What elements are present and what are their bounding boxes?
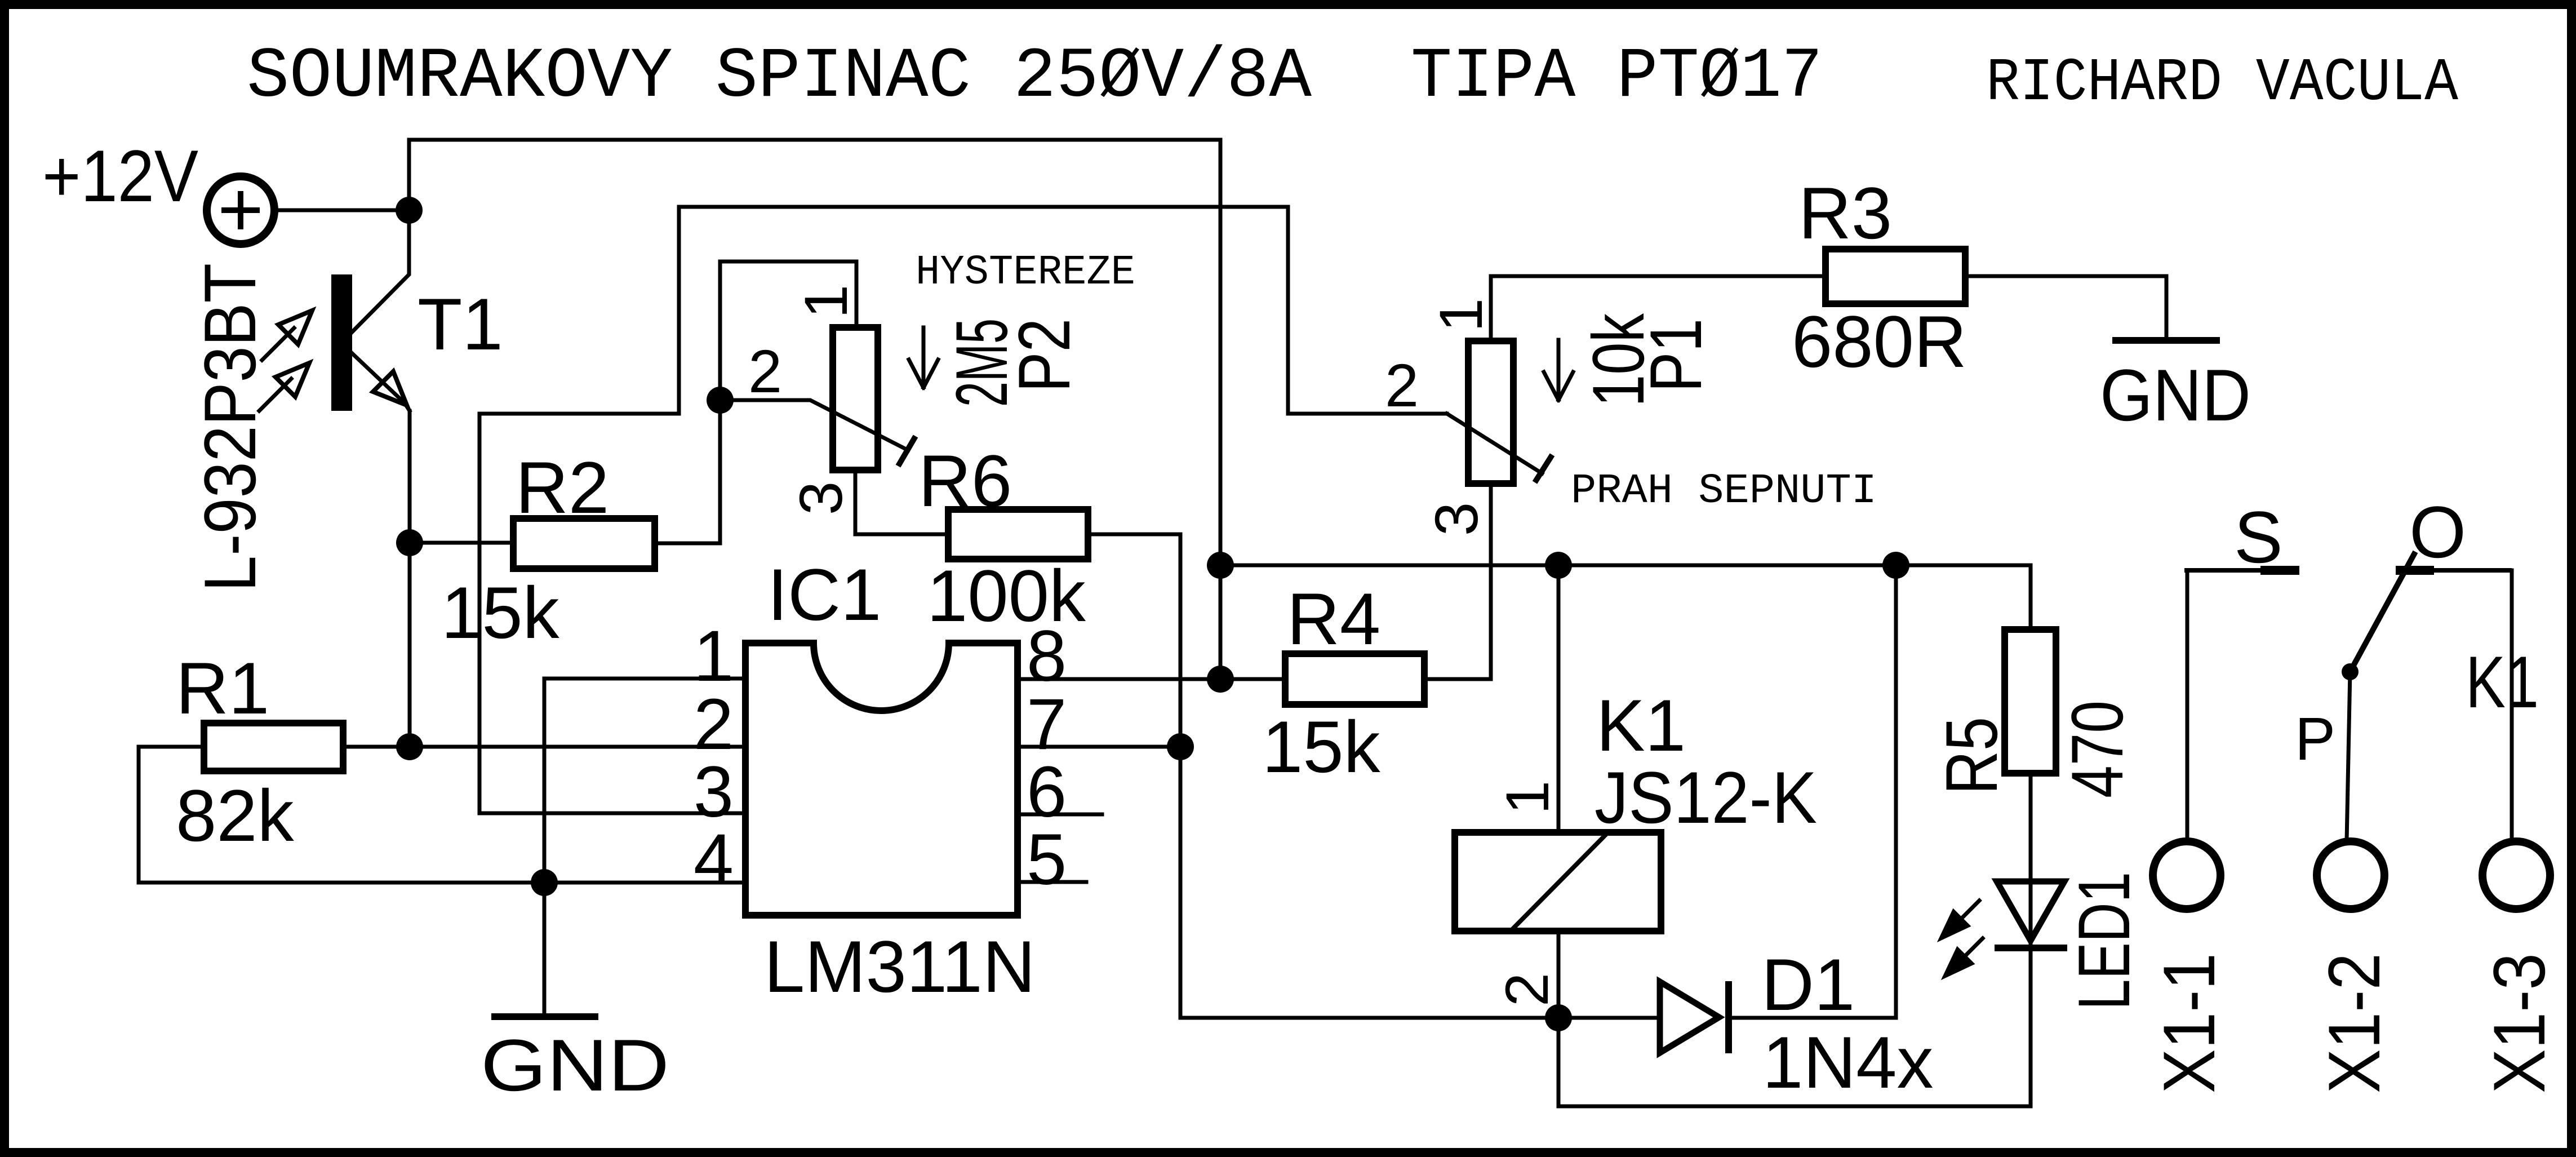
svg-text:+12V: +12V (42, 135, 198, 217)
wire P2 pin3 to R6 (855, 470, 948, 534)
adjust arrow of P2 (909, 327, 938, 388)
label R5 (1930, 717, 2013, 795)
pin 2 wire (410, 745, 745, 749)
label R1 (176, 647, 269, 729)
wire P1 wiper (1447, 414, 1552, 482)
wire coil pin2 (1557, 931, 1561, 1018)
svg-text:P1: P1 (1635, 318, 1717, 392)
svg-text:P2: P2 (1003, 318, 1085, 392)
pin 1 label (694, 616, 734, 697)
pin 2 of P2 (748, 337, 782, 405)
svg-text:2: 2 (748, 337, 782, 405)
svg-text:LED1: LED1 (2063, 872, 2145, 1010)
node pin8/supply (1207, 666, 1234, 693)
wire R6 to output column (1088, 534, 1180, 1018)
label P2 (1003, 318, 1085, 392)
pin 1 of K1 coil (1493, 781, 1561, 814)
pin 7 label (1027, 684, 1067, 765)
svg-text:1: 1 (1493, 781, 1561, 814)
resistor R4 (1285, 654, 1424, 704)
title text (247, 37, 1823, 117)
node ground junction (531, 869, 558, 896)
svg-text:3: 3 (1422, 502, 1490, 536)
pin 5 stub (1018, 880, 1086, 884)
svg-text:TIPA PTØ17: TIPA PTØ17 (1411, 37, 1823, 117)
pin 1 wire (544, 677, 745, 681)
pin 8 label (1027, 616, 1067, 697)
label HYSTEREZE (916, 249, 1135, 296)
pin 4 label (694, 819, 734, 900)
svg-text:K1: K1 (1596, 684, 1686, 766)
label PRAH SEPNUTI (1571, 468, 1877, 515)
svg-text:470: 470 (2056, 701, 2138, 798)
wire R3 to ground (1965, 276, 2166, 337)
svg-text:L-932P3BT: L-932P3BT (189, 263, 271, 592)
label O (2409, 491, 2466, 573)
label S (2234, 496, 2283, 578)
svg-text:1: 1 (1427, 298, 1495, 332)
pin 1 of P2 (792, 285, 860, 318)
resistor R1 (204, 723, 343, 771)
svg-text:GND: GND (481, 1024, 669, 1106)
wire +12V rail to R6/pin8 column (409, 140, 1220, 679)
node supply tap (1207, 552, 1234, 579)
label D1 (1761, 943, 1855, 1026)
svg-text:JS12-K: JS12-K (1595, 756, 1817, 839)
svg-text:GND: GND (2100, 354, 2251, 436)
light arrow into T1 lower (259, 363, 309, 411)
label LM311N (764, 925, 1036, 1008)
svg-text:R5: R5 (1930, 717, 2013, 795)
wire LED return (1558, 948, 2031, 1106)
svg-text:680R: 680R (1792, 300, 1967, 383)
node coil pin2/D1 (1545, 1004, 1572, 1031)
wire P2 wiper (720, 400, 916, 466)
terminal X1-3 (2482, 841, 2550, 909)
label R2 (516, 446, 609, 529)
wire pin8 rail (1018, 677, 1285, 681)
switch K1 moving contact (2342, 552, 2415, 841)
light arrow into T1 upper (262, 311, 312, 360)
svg-text:R3: R3 (1798, 172, 1892, 254)
power source +12V (207, 176, 274, 244)
label R6 (918, 440, 1012, 522)
wire coil pin1 (1557, 565, 1561, 832)
resistor R6 (948, 509, 1088, 559)
pin 6 stub (1018, 813, 1102, 817)
svg-text:D1: D1 (1761, 943, 1855, 1026)
switch contact O (2396, 568, 2512, 573)
ground bottom (481, 883, 669, 1106)
svg-text:X1-1: X1-1 (2148, 953, 2230, 1093)
svg-text:4: 4 (694, 819, 734, 900)
value 82k of R1 (176, 774, 295, 857)
value 470 of R5 (2056, 701, 2138, 798)
node output/pin7 (1167, 733, 1194, 760)
wire O to X1-3 (2510, 570, 2514, 841)
value 680R of R3 (1792, 300, 1967, 383)
wire R1 left to ground rail (139, 747, 745, 883)
label JS12-K (1595, 756, 1817, 839)
wire P1 pin3 to R4 (1424, 484, 1491, 679)
wire R1 right to node (343, 745, 410, 749)
op-amp IC1 (745, 643, 1018, 915)
svg-text:15k: 15k (441, 571, 560, 654)
resistor R5 (2005, 630, 2056, 773)
label +12V (42, 135, 198, 217)
label X1-1 (2148, 953, 2230, 1093)
resistor R3 (1826, 249, 1965, 304)
label X1-2 (2313, 953, 2395, 1093)
label K1 (1596, 684, 1686, 766)
svg-text:2: 2 (1493, 973, 1561, 1007)
pin 2 of K1 coil (1493, 973, 1561, 1007)
resistor R2 (513, 518, 655, 569)
transistor T1 (331, 210, 410, 411)
svg-text:S: S (2234, 496, 2283, 578)
value 15k of R4 (1262, 706, 1381, 788)
wire P1 pin1 to R3 (1491, 276, 1826, 341)
label P1 (1635, 318, 1717, 392)
svg-text:2: 2 (1385, 351, 1419, 419)
wire R5 to LED (2029, 773, 2033, 948)
svg-text:O: O (2409, 491, 2466, 573)
wire output to D1 anode (1180, 1016, 1660, 1020)
svg-text:PRAH SEPNUTI: PRAH SEPNUTI (1571, 468, 1877, 515)
switch contact S (2184, 568, 2299, 573)
light arrow out of LED upper (1939, 901, 1979, 940)
svg-text:1N4x: 1N4x (1762, 1021, 1933, 1103)
relay coil K1 (1455, 832, 1661, 931)
svg-text:HYSTEREZE: HYSTEREZE (916, 249, 1135, 296)
label L-932P3BT (189, 263, 271, 592)
node +12V junction (396, 197, 423, 224)
label X1-3 (2478, 953, 2560, 1093)
svg-text:K1: K1 (2466, 641, 2539, 723)
ground top right (2100, 340, 2251, 436)
value 2M5 of P2 (940, 318, 1023, 407)
svg-text:IC1: IC1 (767, 553, 881, 636)
label K1 switch (2466, 641, 2539, 723)
diode D1 (1660, 981, 1729, 1053)
terminal X1-1 (2153, 841, 2220, 909)
svg-text:15k: 15k (1262, 706, 1381, 788)
svg-text:5: 5 (1027, 819, 1067, 900)
svg-text:P: P (2295, 704, 2335, 773)
wire supply rail right (1220, 565, 2031, 630)
wire emitter down (408, 411, 412, 747)
svg-text:R1: R1 (176, 647, 269, 729)
light arrow out of LED lower (1943, 938, 1983, 978)
wire pin3 branch (479, 207, 745, 813)
label LED1 (2063, 872, 2145, 1010)
pin 7 wire (1018, 745, 1180, 749)
pin 2 of P1 (1385, 351, 1419, 419)
value 100k of R6 (927, 555, 1086, 637)
pin 3 of P2 (787, 481, 855, 515)
svg-text:82k: 82k (176, 774, 295, 857)
label R4 (1287, 578, 1380, 660)
LED LED1 (1995, 881, 2067, 948)
label R3 (1798, 172, 1892, 254)
potentiometer P2 (833, 327, 878, 470)
label T1 (418, 283, 503, 365)
value 1N4x of D1 (1762, 1021, 1933, 1103)
wire R2 to P2 network (655, 261, 856, 543)
wire S to X1-1 (2186, 570, 2189, 841)
node coil pin1 tap (1545, 552, 1572, 579)
pin 6 label (1027, 752, 1067, 832)
wire node to R2 (410, 541, 513, 545)
pin 2 label (694, 684, 734, 765)
wire inverting rail (679, 207, 1447, 414)
label IC1 (767, 553, 881, 636)
node R1/pin2 (396, 733, 423, 760)
adjust arrow of P1 (1544, 340, 1573, 400)
label P (2295, 704, 2335, 773)
wire +12V to node (278, 209, 409, 212)
potentiometer P1 (1468, 341, 1513, 484)
node D1 rail tap (1882, 552, 1909, 579)
svg-text:R4: R4 (1287, 578, 1380, 660)
svg-text:R6: R6 (918, 440, 1012, 522)
value 15k of R2 (441, 571, 560, 654)
svg-text:X1-2: X1-2 (2313, 953, 2395, 1093)
author text (1986, 49, 2458, 118)
svg-text:RICHARD VACULA: RICHARD VACULA (1986, 49, 2458, 118)
pin 3 label (694, 752, 734, 832)
pin 1 of P1 (1427, 298, 1495, 332)
node emitter/R2 (396, 529, 423, 556)
svg-text:T1: T1 (418, 283, 503, 365)
svg-text:1: 1 (792, 285, 860, 318)
node P2 wiper junction (707, 387, 734, 414)
svg-text:SOUMRAKOVY SPINAC 25ØV/8A: SOUMRAKOVY SPINAC 25ØV/8A (247, 37, 1312, 117)
wire D1 cathode up to rail (1729, 565, 1896, 1018)
wire pin1 down to ground (543, 679, 547, 883)
pin 5 label (1027, 819, 1067, 900)
value 10k of P1 (1577, 313, 1659, 407)
pin 3 of P1 (1422, 502, 1490, 536)
terminal X1-2 (2317, 841, 2384, 909)
svg-text:R2: R2 (516, 446, 609, 529)
svg-text:X1-3: X1-3 (2478, 953, 2560, 1093)
svg-text:3: 3 (787, 481, 855, 515)
svg-text:LM311N: LM311N (764, 925, 1036, 1008)
